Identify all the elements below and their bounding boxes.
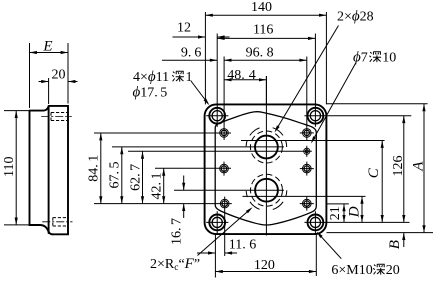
dimension 84.1 bbox=[87, 133, 103, 204]
extension line M10-bottom reference to left stack bbox=[94, 203, 232, 205]
side view hidden hole top (M10) bbox=[51, 113, 67, 121]
svg-text:120: 120 bbox=[254, 258, 275, 273]
svg-text:16.7: 16.7 bbox=[169, 218, 184, 245]
dimension 110 bbox=[2, 111, 30, 225]
leader 6xM10 bbox=[315, 230, 341, 258]
leader phi7 bbox=[310, 63, 356, 145]
dimension 11.6 bbox=[197, 238, 256, 255]
dimension 67.5 bbox=[108, 147, 124, 204]
svg-text:20: 20 bbox=[52, 68, 66, 83]
M10 hole bottom-left bbox=[220, 199, 229, 208]
phi7 hole bbox=[304, 146, 310, 157]
big hole bottom (phi28) bbox=[246, 174, 287, 209]
corner hole TR bbox=[304, 105, 326, 127]
svg-text:42.1: 42.1 bbox=[150, 173, 165, 200]
label phi7 deep10 bbox=[353, 50, 396, 66]
dimension 20 bbox=[39, 68, 78, 105]
extension line plate bottom to right (A B) bbox=[327, 232, 433, 234]
bottom extension verticals bbox=[214, 234, 216, 277]
extension line M10-bottom row to right (21 dim) bbox=[327, 203, 349, 205]
corner hole TL (4xphi11 counterbore phi17.5) bbox=[206, 105, 228, 127]
M10 hole mid-left bbox=[220, 162, 229, 176]
extension line row M10-top to left stack bbox=[94, 132, 231, 134]
side view flange outline bbox=[49, 106, 68, 234]
dimension 9.6 bbox=[162, 45, 217, 62]
extension line plate top to right (A) bbox=[327, 103, 428, 105]
svg-text:116: 116 bbox=[253, 23, 273, 38]
dimension 42.1 bbox=[150, 168, 166, 203]
M10 hole top-left bbox=[220, 129, 229, 138]
svg-text:10: 10 bbox=[382, 51, 396, 66]
inner contour bbox=[215, 112, 316, 225]
svg-text:21: 21 bbox=[328, 206, 343, 220]
extension line phi7 row bbox=[128, 150, 312, 152]
svg-text:62.7: 62.7 bbox=[128, 164, 143, 191]
dimension 12 bbox=[173, 21, 230, 39]
side view main body outline bbox=[30, 107, 53, 235]
dimension 48.4 bbox=[224, 68, 266, 83]
svg-text:140: 140 bbox=[251, 0, 272, 15]
svg-text:96.8: 96.8 bbox=[246, 45, 274, 60]
extension line row D (Rc port lower) bbox=[243, 195, 366, 197]
svg-text:67.5: 67.5 bbox=[108, 162, 123, 189]
dimension 126 bbox=[391, 116, 406, 223]
svg-text:48.4: 48.4 bbox=[227, 68, 256, 83]
extension line row C (Rc port upper) bbox=[241, 140, 385, 142]
svg-text:B: B bbox=[387, 240, 403, 249]
vertical centerline of big holes bbox=[265, 76, 267, 236]
extension line big1 centerline bbox=[112, 146, 284, 148]
corner hole BL bbox=[206, 211, 228, 233]
dimension B bbox=[387, 233, 405, 250]
svg-text:ϕ17.5: ϕ17.5 bbox=[133, 85, 168, 101]
extension line M10-mid to left stack bbox=[155, 167, 231, 169]
svg-text:110: 110 bbox=[2, 157, 17, 177]
dimension 140 bbox=[205, 0, 326, 17]
svg-text:20: 20 bbox=[386, 263, 400, 278]
svg-text:A: A bbox=[410, 161, 426, 172]
side view hole top centerline bbox=[41, 116, 72, 118]
dimension C bbox=[366, 141, 384, 223]
side view hole bottom centerline bbox=[42, 221, 72, 223]
svg-text:6×M10: 6×M10 bbox=[331, 263, 372, 278]
svg-text:9.6: 9.6 bbox=[181, 45, 202, 60]
leader 4xphi11 bbox=[191, 81, 211, 106]
dimension E bbox=[30, 38, 69, 108]
label 6xM10 deep20 bbox=[331, 263, 399, 278]
svg-text:11.6: 11.6 bbox=[229, 238, 256, 253]
svg-text:E: E bbox=[42, 38, 52, 54]
dimension 96.8 bbox=[224, 45, 307, 62]
svg-text:1: 1 bbox=[186, 70, 193, 85]
svg-text:C: C bbox=[366, 167, 382, 178]
svg-text:4×ϕ11: 4×ϕ11 bbox=[133, 69, 169, 85]
svg-text:2×ϕ28: 2×ϕ28 bbox=[337, 9, 374, 25]
dimension 116 bbox=[217, 23, 315, 40]
leader Rc F bbox=[198, 206, 254, 256]
leader 2xphi28 bbox=[273, 26, 338, 134]
svg-text:D: D bbox=[347, 206, 363, 218]
extension line corner row top to right (126) bbox=[327, 115, 412, 117]
corner hole BR bbox=[304, 211, 326, 233]
dimension D bbox=[347, 196, 364, 222]
big hole top (phi28) bbox=[246, 128, 287, 163]
svg-text:126: 126 bbox=[391, 156, 406, 177]
dimension 16.7 bbox=[169, 176, 185, 246]
side view hidden hole bottom (M10) bbox=[53, 218, 68, 226]
top extension verticals bbox=[204, 12, 206, 104]
M10 hole top-right bbox=[300, 129, 314, 138]
plate outline bbox=[205, 104, 327, 234]
label 4xphi11 deep1 / phi17.5 bbox=[133, 69, 193, 101]
extension line big2 centerline bbox=[174, 189, 284, 191]
label 2xRc"F" bbox=[150, 256, 200, 273]
svg-text:84.1: 84.1 bbox=[87, 155, 102, 182]
M10 hole bottom-right bbox=[300, 197, 314, 211]
dimension 120 bbox=[215, 258, 316, 273]
dimension 62.7 bbox=[128, 151, 144, 203]
dimension A bbox=[410, 104, 426, 233]
svg-text:12: 12 bbox=[177, 21, 191, 36]
extension line corner row bottom to right bbox=[327, 221, 410, 223]
M10 hole mid-right bbox=[300, 162, 314, 176]
dimension 21 bbox=[328, 204, 346, 223]
